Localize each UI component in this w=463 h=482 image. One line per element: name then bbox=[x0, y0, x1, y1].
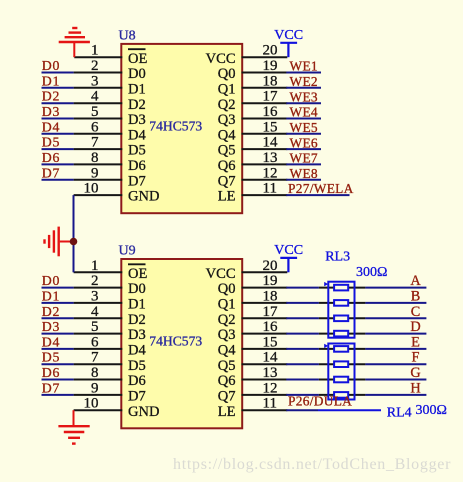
svg-text:6: 6 bbox=[91, 334, 99, 350]
svg-text:8: 8 bbox=[91, 150, 99, 166]
svg-text:LE: LE bbox=[218, 404, 236, 420]
U8 pin name D1 bbox=[128, 81, 146, 97]
svg-text:Q0: Q0 bbox=[218, 281, 236, 297]
svg-text:7: 7 bbox=[91, 350, 99, 366]
watermark text bbox=[173, 456, 451, 473]
U8 pin 7 bbox=[74, 135, 123, 151]
svg-text:4: 4 bbox=[91, 304, 99, 320]
U8 pin name Q4 bbox=[218, 127, 236, 143]
svg-text:D1: D1 bbox=[42, 288, 60, 303]
U9 pin 1 bbox=[74, 258, 123, 274]
U8 pin name Q7 bbox=[218, 173, 236, 189]
RL4 pin-1 marker bbox=[324, 344, 328, 348]
net label D5 (U9 side) bbox=[42, 350, 60, 365]
U9 pin name D3 bbox=[128, 327, 146, 343]
svg-text:7: 7 bbox=[91, 135, 99, 151]
wire net D5 to U9 bbox=[42, 363, 74, 365]
resistor RL3 element 2 bbox=[334, 300, 348, 306]
U9 pin 14 bbox=[242, 350, 288, 366]
svg-text:https://blog.csdn.net/TodChen_: https://blog.csdn.net/TodChen_Blogger bbox=[173, 456, 451, 473]
wire net C (through resistor pack) bbox=[286, 317, 426, 319]
svg-text:74HC573: 74HC573 bbox=[149, 334, 202, 349]
svg-text:5: 5 bbox=[91, 319, 99, 335]
svg-text:VCC: VCC bbox=[206, 51, 236, 67]
U9 pin 17 bbox=[242, 304, 288, 320]
U9 pin name D2 bbox=[128, 312, 146, 328]
svg-text:Q3: Q3 bbox=[218, 327, 236, 343]
net label D4 (U8 side) bbox=[42, 119, 60, 134]
U9 pin name D4 bbox=[128, 343, 146, 359]
svg-text:WE5: WE5 bbox=[290, 120, 318, 135]
svg-text:14: 14 bbox=[263, 135, 279, 151]
wire net D0 to U9 bbox=[42, 287, 74, 289]
net label D3 (U9 side) bbox=[42, 319, 60, 334]
U9 pin name Q6 bbox=[218, 373, 236, 389]
U8 pin name Q1 bbox=[218, 81, 236, 97]
svg-text:D4: D4 bbox=[128, 343, 146, 359]
net label H bbox=[410, 380, 420, 396]
U9 pin 8 bbox=[74, 365, 123, 381]
U9 pin name Q5 bbox=[218, 358, 236, 374]
net label G bbox=[410, 365, 420, 381]
svg-text:D7: D7 bbox=[128, 173, 146, 189]
svg-text:D6: D6 bbox=[128, 158, 146, 174]
wire net WE5 bbox=[286, 133, 321, 135]
designator RL3 bbox=[325, 249, 350, 264]
U9 pin name Q7 bbox=[218, 389, 236, 405]
svg-text:Q2: Q2 bbox=[218, 97, 236, 113]
wire net D6 to U9 bbox=[42, 379, 74, 381]
U9 pin 15 bbox=[242, 334, 288, 350]
svg-text:Q5: Q5 bbox=[218, 143, 236, 159]
svg-text:F: F bbox=[412, 350, 420, 366]
U8 pin name D7 bbox=[128, 173, 146, 189]
net label WE2 bbox=[290, 74, 318, 89]
net label C bbox=[411, 304, 421, 320]
U8 pin name OE (with overbar) bbox=[128, 49, 147, 67]
svg-text:D4: D4 bbox=[42, 334, 60, 349]
svg-text:D3: D3 bbox=[42, 319, 60, 334]
wire net WE3 bbox=[286, 102, 321, 104]
U9 pin 9 bbox=[74, 380, 123, 396]
svg-text:VCC: VCC bbox=[274, 28, 303, 43]
wire net P27/WELA bbox=[286, 194, 349, 196]
U8 pin name Q6 bbox=[218, 158, 236, 174]
value label 74HC573 (U8) bbox=[149, 119, 202, 134]
U9 pin name Q0 bbox=[218, 281, 236, 297]
resistor RL4 element 3 bbox=[334, 377, 348, 383]
svg-text:D3: D3 bbox=[42, 104, 60, 119]
svg-text:OE: OE bbox=[128, 51, 147, 67]
U8 pin 8 bbox=[74, 150, 123, 166]
svg-text:VCC: VCC bbox=[274, 243, 303, 258]
net label D5 (U8 side) bbox=[42, 135, 60, 150]
svg-text:9: 9 bbox=[91, 380, 99, 396]
svg-text:17: 17 bbox=[263, 304, 279, 320]
power port VCC (U8 pin 20) bbox=[274, 28, 303, 57]
net label D0 (U8 side) bbox=[42, 58, 60, 73]
svg-text:18: 18 bbox=[263, 288, 278, 304]
U8 pin 9 bbox=[74, 165, 123, 181]
wire net D4 to U9 bbox=[42, 348, 74, 350]
svg-text:1: 1 bbox=[91, 258, 99, 274]
U9 pin 20 bbox=[242, 258, 288, 274]
U8 pin name D5 bbox=[128, 143, 146, 159]
U8 pin name Q2 bbox=[218, 97, 236, 113]
svg-text:D3: D3 bbox=[128, 112, 146, 128]
wire net D5 to U8 bbox=[42, 148, 74, 150]
U9 pin name Q3 bbox=[218, 327, 236, 343]
svg-text:12: 12 bbox=[263, 380, 278, 396]
U9 pin 16 bbox=[242, 319, 288, 335]
U8 pin name Q3 bbox=[218, 112, 236, 128]
svg-text:RL3: RL3 bbox=[325, 249, 350, 264]
U8 pin name D6 bbox=[128, 158, 146, 174]
U9 pin 3 bbox=[74, 288, 123, 304]
wire net WE4 bbox=[286, 118, 321, 120]
U9 pin 13 bbox=[242, 365, 288, 381]
U9 pin 7 bbox=[74, 350, 123, 366]
net label D0 (U9 side) bbox=[42, 273, 60, 288]
U9 pin 12 bbox=[242, 380, 288, 396]
wire net WE7 bbox=[286, 163, 321, 165]
svg-text:WE2: WE2 bbox=[290, 74, 318, 89]
junction dot on GND net bbox=[70, 238, 78, 246]
svg-text:D5: D5 bbox=[42, 135, 60, 150]
svg-text:C: C bbox=[411, 304, 421, 320]
svg-text:D2: D2 bbox=[128, 312, 146, 328]
net label WE6 bbox=[290, 135, 318, 150]
net label WE8 bbox=[290, 166, 318, 181]
net label B bbox=[411, 288, 421, 304]
U9 pin 10 bbox=[74, 396, 123, 412]
wire net D (through resistor pack) bbox=[286, 333, 426, 335]
U8 pin name D4 bbox=[128, 127, 146, 143]
svg-text:19: 19 bbox=[263, 58, 278, 74]
svg-text:D0: D0 bbox=[128, 281, 146, 297]
value label 300&#937; (RL4) bbox=[416, 403, 447, 418]
net label D7 (U8 side) bbox=[42, 165, 60, 180]
svg-text:D6: D6 bbox=[42, 365, 60, 380]
wire net D7 to U9 bbox=[42, 394, 74, 396]
U8 pin 2 bbox=[74, 58, 123, 74]
svg-text:D0: D0 bbox=[42, 58, 60, 73]
svg-text:18: 18 bbox=[263, 73, 278, 89]
wire net B (through resistor pack) bbox=[286, 302, 426, 304]
svg-text:RL4: RL4 bbox=[387, 405, 412, 420]
U8 pin 5 bbox=[74, 104, 123, 120]
U8 pin name LE bbox=[218, 189, 236, 205]
U9 pin name D1 bbox=[128, 297, 146, 313]
U8 pin 12 bbox=[242, 165, 288, 181]
net label D bbox=[410, 319, 420, 335]
wire net H (through resistor pack) bbox=[286, 394, 426, 396]
wire net F (through resistor pack) bbox=[286, 363, 426, 365]
svg-text:D2: D2 bbox=[42, 89, 60, 104]
svg-text:D4: D4 bbox=[128, 127, 146, 143]
svg-text:WE4: WE4 bbox=[290, 105, 318, 120]
svg-text:1: 1 bbox=[91, 43, 99, 59]
svg-text:P27/WELA: P27/WELA bbox=[288, 181, 354, 196]
svg-text:11: 11 bbox=[263, 396, 277, 412]
svg-text:D0: D0 bbox=[42, 273, 60, 288]
U9 pin name D7 bbox=[128, 389, 146, 405]
svg-text:10: 10 bbox=[84, 396, 99, 412]
net label WE7 bbox=[290, 151, 318, 166]
net label D2 (U9 side) bbox=[42, 304, 60, 319]
svg-text:WE7: WE7 bbox=[290, 151, 318, 166]
svg-text:Q5: Q5 bbox=[218, 358, 236, 374]
U9 pin name GND bbox=[128, 404, 159, 420]
svg-text:20: 20 bbox=[263, 43, 278, 59]
svg-text:D7: D7 bbox=[128, 389, 146, 405]
wire net WE1 bbox=[286, 72, 321, 74]
svg-text:H: H bbox=[410, 380, 420, 396]
U8 pin 15 bbox=[242, 119, 288, 135]
U9 pin name D0 bbox=[128, 281, 146, 297]
svg-text:D0: D0 bbox=[128, 66, 146, 82]
svg-text:16: 16 bbox=[263, 104, 279, 120]
svg-text:Q2: Q2 bbox=[218, 312, 236, 328]
U8 pin 10 bbox=[74, 181, 123, 197]
value label 300&#937; (RL3) bbox=[356, 265, 387, 280]
wire net D2 to U8 bbox=[42, 102, 74, 104]
resistor RL4 element 4 bbox=[334, 392, 348, 398]
net label WE5 bbox=[290, 120, 318, 135]
svg-text:A: A bbox=[410, 273, 421, 289]
net label D6 (U9 side) bbox=[42, 365, 60, 380]
svg-text:D1: D1 bbox=[128, 81, 146, 97]
RL4 common lead line bbox=[318, 409, 381, 411]
svg-text:Q4: Q4 bbox=[218, 127, 236, 143]
U9 pin 2 bbox=[74, 273, 123, 289]
svg-text:Q7: Q7 bbox=[218, 173, 236, 189]
U9 pin 5 bbox=[74, 319, 123, 335]
svg-text:15: 15 bbox=[263, 119, 278, 135]
svg-text:D5: D5 bbox=[128, 358, 146, 374]
net label WE3 bbox=[290, 89, 318, 104]
svg-text:5: 5 bbox=[91, 104, 99, 120]
svg-text:3: 3 bbox=[91, 288, 99, 304]
IC U9 74HC573 body bbox=[121, 259, 242, 428]
svg-text:D1: D1 bbox=[42, 73, 60, 88]
svg-text:11: 11 bbox=[263, 181, 277, 197]
U8 pin 14 bbox=[242, 135, 288, 151]
svg-text:G: G bbox=[410, 365, 420, 381]
wire net WE8 bbox=[286, 179, 321, 181]
wire net WE2 bbox=[286, 87, 321, 89]
svg-text:LE: LE bbox=[218, 189, 236, 205]
wire net P26/DULA bbox=[286, 409, 318, 411]
net label D7 (U9 side) bbox=[42, 380, 60, 395]
wire net WE6 bbox=[286, 148, 321, 150]
wire net D3 to U9 bbox=[42, 333, 74, 335]
U8 pin 11 bbox=[242, 181, 288, 197]
resistor pack RL4 outline bbox=[328, 344, 354, 400]
value label 74HC573 (U9) bbox=[149, 334, 202, 349]
net label D2 (U8 side) bbox=[42, 89, 60, 104]
svg-text:Q6: Q6 bbox=[218, 158, 236, 174]
svg-text:P26/DULA: P26/DULA bbox=[288, 394, 352, 409]
U9 pin name D5 bbox=[128, 358, 146, 374]
svg-text:GND: GND bbox=[128, 404, 159, 420]
svg-text:13: 13 bbox=[263, 365, 278, 381]
U8 pin name D0 bbox=[128, 66, 146, 82]
svg-text:OE: OE bbox=[128, 266, 147, 282]
U8 pin name GND bbox=[128, 189, 159, 205]
svg-text:B: B bbox=[411, 288, 421, 304]
resistor RL3 element 4 bbox=[334, 331, 348, 337]
svg-text:D5: D5 bbox=[42, 350, 60, 365]
designator RL4 bbox=[387, 405, 412, 420]
svg-text:16: 16 bbox=[263, 319, 279, 335]
ground symbol (top, U8 pin 1 OE) bbox=[59, 28, 90, 57]
U9 pin 19 bbox=[242, 273, 288, 289]
svg-text:Q6: Q6 bbox=[218, 373, 236, 389]
svg-text:12: 12 bbox=[263, 165, 278, 181]
net label E bbox=[411, 334, 420, 350]
designator U9 bbox=[119, 244, 136, 259]
svg-text:Q3: Q3 bbox=[218, 112, 236, 128]
RL3 pin-1 marker bbox=[324, 282, 328, 286]
ground symbol (bottom, U9 pin 10 GND) bbox=[58, 410, 89, 443]
svg-text:6: 6 bbox=[91, 119, 99, 135]
svg-text:D6: D6 bbox=[42, 150, 60, 165]
svg-text:10: 10 bbox=[84, 181, 99, 197]
net label A bbox=[410, 273, 421, 289]
wire net D3 to U8 bbox=[42, 118, 74, 120]
svg-text:Q4: Q4 bbox=[218, 343, 236, 359]
U9 pin name Q1 bbox=[218, 297, 236, 313]
svg-text:Q0: Q0 bbox=[218, 66, 236, 82]
net label D1 (U8 side) bbox=[42, 73, 60, 88]
U8 pin 3 bbox=[74, 73, 123, 89]
net label WE4 bbox=[290, 105, 318, 120]
net label D6 (U8 side) bbox=[42, 150, 60, 165]
svg-text:3: 3 bbox=[91, 73, 99, 89]
U8 pin name Q5 bbox=[218, 143, 236, 159]
resistor RL3 element 3 bbox=[334, 316, 348, 322]
svg-text:E: E bbox=[411, 334, 420, 350]
U8 pin name Q0 bbox=[218, 66, 236, 82]
wire net D4 to U8 bbox=[42, 133, 74, 135]
resistor RL4 element 1 bbox=[334, 346, 348, 352]
svg-text:WE3: WE3 bbox=[290, 89, 318, 104]
U8 pin 4 bbox=[74, 89, 123, 105]
U9 pin 18 bbox=[242, 288, 288, 304]
svg-text:D6: D6 bbox=[128, 373, 146, 389]
designator U8 bbox=[119, 29, 136, 44]
svg-text:9: 9 bbox=[91, 165, 99, 181]
U9 pin name OE (with overbar) bbox=[128, 264, 147, 282]
U8 pin 13 bbox=[242, 150, 288, 166]
U8 pin name VCC bbox=[206, 51, 236, 67]
wire net D1 to U9 bbox=[42, 302, 74, 304]
U9 pin name LE bbox=[218, 404, 236, 420]
U9 pin name Q2 bbox=[218, 312, 236, 328]
svg-text:Q1: Q1 bbox=[218, 297, 236, 313]
svg-text:Q7: Q7 bbox=[218, 389, 236, 405]
svg-text:Q1: Q1 bbox=[218, 81, 236, 97]
svg-text:74HC573: 74HC573 bbox=[149, 119, 202, 134]
svg-text:D: D bbox=[410, 319, 420, 335]
net label P27/WELA bbox=[288, 181, 354, 196]
svg-text:2: 2 bbox=[91, 273, 99, 289]
net label D1 (U9 side) bbox=[42, 288, 60, 303]
svg-text:WE8: WE8 bbox=[290, 166, 318, 181]
U8 pin name D2 bbox=[128, 97, 146, 113]
svg-text:300Ω: 300Ω bbox=[416, 403, 447, 418]
U9 pin 4 bbox=[74, 304, 123, 320]
net label P26/DULA bbox=[288, 394, 352, 409]
svg-text:17: 17 bbox=[263, 89, 279, 105]
svg-text:GND: GND bbox=[128, 189, 159, 205]
wire net D7 to U8 bbox=[42, 179, 74, 181]
resistor pack RL3 outline bbox=[328, 282, 354, 338]
U8 pin 6 bbox=[74, 119, 123, 135]
net label F bbox=[412, 350, 420, 366]
svg-text:19: 19 bbox=[263, 273, 278, 289]
U9 pin 11 bbox=[242, 396, 288, 412]
U9 pin name VCC bbox=[206, 266, 236, 282]
svg-text:20: 20 bbox=[263, 258, 278, 274]
U8 pin 18 bbox=[242, 73, 288, 89]
U8 pin name D3 bbox=[128, 112, 146, 128]
resistor RL4 element 2 bbox=[334, 361, 348, 367]
wire net D6 to U8 bbox=[42, 163, 74, 165]
wire net E (through resistor pack) bbox=[286, 348, 426, 350]
svg-text:D7: D7 bbox=[42, 165, 60, 180]
wire net D1 to U8 bbox=[42, 87, 74, 89]
U9 pin 6 bbox=[74, 334, 123, 350]
net label D3 (U8 side) bbox=[42, 104, 60, 119]
svg-text:15: 15 bbox=[263, 334, 278, 350]
net label D4 (U9 side) bbox=[42, 334, 60, 349]
U8 pin 16 bbox=[242, 104, 288, 120]
power port VCC (U9 pin 20) bbox=[274, 243, 303, 272]
U8 pin 17 bbox=[242, 89, 288, 105]
U8 pin 1 bbox=[74, 43, 122, 59]
svg-text:8: 8 bbox=[91, 365, 99, 381]
svg-text:U9: U9 bbox=[119, 244, 136, 259]
U9 pin name D6 bbox=[128, 373, 146, 389]
wire net G (through resistor pack) bbox=[286, 379, 426, 381]
U8 pin 19 bbox=[242, 58, 288, 74]
svg-text:VCC: VCC bbox=[206, 266, 236, 282]
wire U8 GND to U9 OE (vertical) bbox=[73, 195, 75, 272]
resistor RL3 element 1 bbox=[334, 285, 348, 291]
net label WE1 bbox=[290, 59, 318, 74]
svg-text:D2: D2 bbox=[42, 304, 60, 319]
svg-text:4: 4 bbox=[91, 89, 99, 105]
svg-text:13: 13 bbox=[263, 150, 278, 166]
svg-text:WE6: WE6 bbox=[290, 135, 318, 150]
wire net A (through resistor pack) bbox=[286, 287, 426, 289]
wire net D0 to U8 bbox=[42, 72, 74, 74]
svg-text:2: 2 bbox=[91, 58, 99, 74]
U9 pin name Q4 bbox=[218, 343, 236, 359]
svg-text:WE1: WE1 bbox=[290, 59, 318, 74]
svg-text:D4: D4 bbox=[42, 119, 60, 134]
svg-text:14: 14 bbox=[263, 350, 279, 366]
IC U8 74HC573 body bbox=[121, 44, 242, 213]
svg-text:D3: D3 bbox=[128, 327, 146, 343]
U8 pin 20 bbox=[242, 43, 288, 59]
svg-text:D5: D5 bbox=[128, 143, 146, 159]
svg-text:D7: D7 bbox=[42, 380, 60, 395]
svg-text:D1: D1 bbox=[128, 297, 146, 313]
wire net D2 to U9 bbox=[42, 317, 74, 319]
